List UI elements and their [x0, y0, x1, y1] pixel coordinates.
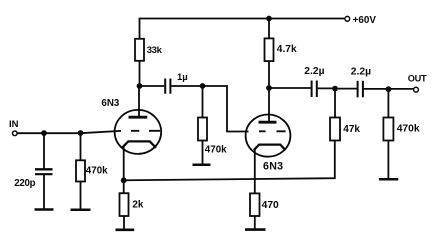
- svg-text:+60V: +60V: [353, 15, 377, 26]
- svg-text:220p: 220p: [14, 178, 35, 189]
- svg-text:6N3: 6N3: [101, 98, 120, 109]
- svg-text:470k: 470k: [86, 166, 108, 177]
- svg-text:470: 470: [262, 200, 279, 211]
- svg-text:33k: 33k: [147, 45, 163, 56]
- svg-text:1µ: 1µ: [177, 72, 188, 83]
- svg-text:4.7k: 4.7k: [277, 44, 297, 55]
- svg-text:2k: 2k: [132, 200, 143, 211]
- svg-text:OUT: OUT: [408, 74, 427, 84]
- svg-text:2.2µ: 2.2µ: [351, 66, 371, 77]
- svg-text:470k: 470k: [205, 144, 227, 155]
- svg-text:2.2µ: 2.2µ: [304, 66, 324, 77]
- svg-text:47k: 47k: [343, 124, 360, 135]
- svg-text:6N3: 6N3: [263, 161, 283, 173]
- svg-text:470k: 470k: [397, 124, 420, 135]
- svg-text:IN: IN: [9, 119, 19, 130]
